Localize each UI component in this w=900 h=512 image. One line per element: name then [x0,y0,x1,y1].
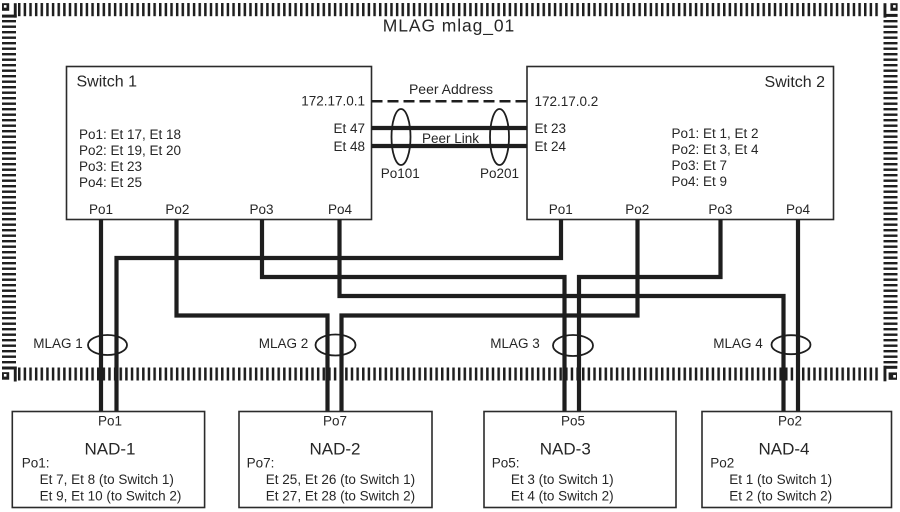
svg-text:Et 9, Et 10 (to Switch 2): Et 9, Et 10 (to Switch 2) [40,489,182,504]
svg-text:Po3: Po3 [249,202,273,217]
MLAG zone border: top-right corner mark [884,3,898,17]
svg-text:Et 48: Et 48 [333,139,365,154]
NAD-2 box [239,412,432,508]
MLAG zone border: bottom-right corner mark [884,366,898,382]
MLAG zone border: top band [18,3,880,16]
MLAG zone border: left band [2,19,16,364]
svg-text:Po2: Po2 [710,456,734,471]
svg-text:Et 2 (to Switch 2): Et 2 (to Switch 2) [729,489,832,504]
NAD-1 port detail [22,456,182,504]
switch 2 box [527,67,834,220]
svg-text:172.17.0.2: 172.17.0.2 [535,94,599,109]
svg-text:Po3: Et 23: Po3: Et 23 [79,159,142,174]
svg-text:Switch 2: Switch 2 [765,74,826,91]
svg-text:MLAG 1: MLAG 1 [33,336,83,351]
NAD-4 port detail [710,456,832,504]
MLAG 3 ellipse [553,335,593,356]
NAD-3 box [484,412,676,508]
svg-text:Et 47: Et 47 [333,121,365,136]
wire switch1 Po3 to NAD-3 [262,220,565,412]
svg-text:Et 25, Et 26 (to Switch 1): Et 25, Et 26 (to Switch 1) [266,472,415,487]
wire switch1 Po1 to NAD-1 [99,220,103,412]
svg-text:Po7: Po7 [323,413,347,428]
wire switch2 Po3 to NAD-3 [579,220,721,412]
svg-text:MLAG mlag_01: MLAG mlag_01 [383,16,515,37]
MLAG zone border: top-left corner mark [2,3,17,17]
svg-text:Po4: Et 9: Po4: Et 9 [672,174,728,189]
switch 1 port list [79,127,181,190]
svg-text:Po201: Po201 [480,166,519,181]
svg-text:Po5: Po5 [561,413,585,428]
wire switch2 Po4 to NAD-4 [796,220,800,412]
svg-text:Po3: Po3 [708,202,732,217]
svg-text:Et 24: Et 24 [535,139,567,154]
svg-text:Po1: Po1 [98,413,122,428]
svg-text:MLAG 2: MLAG 2 [259,336,309,351]
port channel ellipse Po201 [490,109,509,165]
MLAG zone border: bottom-left corner mark [2,367,17,382]
svg-text:Po4: Et 25: Po4: Et 25 [79,175,142,190]
MLAG zone border: bottom band [17,368,879,381]
svg-text:NAD-3: NAD-3 [540,440,591,459]
svg-text:Po2: Po2 [165,202,189,217]
svg-text:Po101: Po101 [381,166,420,181]
switch 1 box [67,67,372,220]
svg-text:Po1:: Po1: [22,456,50,471]
wire switch1 Po2 to NAD-2 [177,220,328,412]
svg-text:NAD-1: NAD-1 [84,440,135,459]
wire switch2 Po1 to NAD-1 [117,220,562,412]
svg-text:172.17.0.1: 172.17.0.1 [301,94,365,109]
svg-text:Peer Link: Peer Link [422,131,479,146]
svg-text:Po1: Et 17, Et 18: Po1: Et 17, Et 18 [79,127,181,142]
MLAG 1 ellipse [88,335,127,355]
svg-text:Peer Address: Peer Address [409,81,493,97]
svg-text:Po3: Et 7: Po3: Et 7 [672,158,728,173]
svg-text:Po2: Po2 [625,202,649,217]
svg-text:Et 3 (to Switch 1): Et 3 (to Switch 1) [511,472,614,487]
svg-text:Et 23: Et 23 [535,121,567,136]
NAD-3 port detail [492,456,614,504]
NAD-4 box [702,412,892,508]
MLAG 2 ellipse [316,335,356,356]
svg-text:Po1: Po1 [89,202,113,217]
svg-text:Et 4 (to Switch 2): Et 4 (to Switch 2) [511,489,614,504]
svg-text:Po2: Po2 [778,413,802,428]
wire switch1 Po4 to NAD-4 [340,220,784,412]
svg-text:NAD-2: NAD-2 [309,440,360,459]
svg-text:Po1: Et 1, Et 2: Po1: Et 1, Et 2 [672,126,759,141]
svg-text:Switch 1: Switch 1 [77,74,138,91]
svg-text:Et 1 (to Switch 1): Et 1 (to Switch 1) [729,472,832,487]
svg-text:Et 27, Et 28 (to Switch 2): Et 27, Et 28 (to Switch 2) [266,489,415,504]
svg-text:NAD-4: NAD-4 [758,440,809,459]
wire switch2 Po2 to NAD-2 [342,220,638,412]
NAD-1 box [12,412,204,508]
svg-text:MLAG 4: MLAG 4 [713,336,763,351]
svg-text:Po4: Po4 [328,202,353,217]
svg-text:Po2: Et 3, Et 4: Po2: Et 3, Et 4 [672,142,760,157]
svg-text:Et 7, Et 8 (to Switch 1): Et 7, Et 8 (to Switch 1) [40,472,174,487]
svg-text:Po1: Po1 [549,202,573,217]
MLAG 4 ellipse [772,335,811,354]
wire peer link Et48-Et24 [372,144,528,148]
svg-text:Po2: Et 19, Et 20: Po2: Et 19, Et 20 [79,143,181,158]
svg-text:Po4: Po4 [786,202,811,217]
port channel ellipse Po101 [392,109,411,165]
wire peer address dashed line [372,100,528,103]
switch 2 port list [672,126,760,189]
svg-text:Po7:: Po7: [247,456,275,471]
MLAG zone border: right band [884,19,898,364]
wire peer link Et47-Et23 [372,126,528,130]
NAD-2 port detail [247,456,416,504]
svg-text:MLAG 3: MLAG 3 [490,336,540,351]
svg-text:Po5:: Po5: [492,456,520,471]
